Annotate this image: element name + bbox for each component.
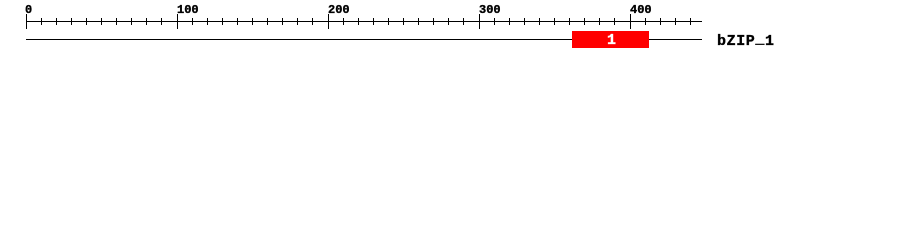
ruler major tick at x=177 bbox=[177, 14, 178, 29]
ruler major tick at x=630 bbox=[630, 14, 631, 29]
ruler label 300 bbox=[479, 4, 501, 16]
sequence line bbox=[26, 39, 702, 40]
ruler label 0 bbox=[25, 4, 32, 16]
domain name label bZIP_1 bbox=[717, 34, 775, 49]
ruler label 100 bbox=[177, 4, 199, 16]
domain number 1 bbox=[607, 33, 616, 48]
ruler major tick at x=479 bbox=[479, 14, 480, 29]
ruler label 200 bbox=[328, 4, 350, 16]
ruler major tick at x=328 bbox=[328, 14, 329, 29]
ruler line bbox=[26, 21, 702, 22]
domain box 1 (bZIP_1) bbox=[572, 31, 649, 48]
ruler major tick at x=26 bbox=[26, 14, 27, 29]
ruler label 400 bbox=[630, 4, 652, 16]
ruler minor ticks bbox=[0, 0, 900, 1]
